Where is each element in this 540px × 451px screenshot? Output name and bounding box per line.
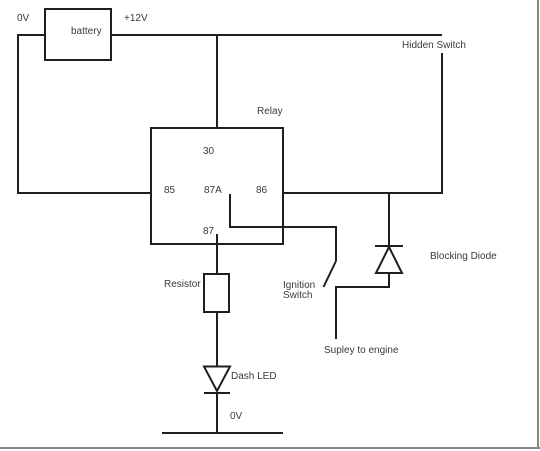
label: Ignition Switch [283, 281, 315, 301]
wire: left vertical 0V drop [17, 34, 19, 194]
wire: top +12V rail from 0V corner to hidden switch [17, 34, 442, 36]
resistor R1 box [203, 273, 230, 313]
wire: vertical from rail to relay pin 30 [216, 34, 218, 127]
battery B1 [44, 8, 112, 61]
wire: 87A horizontal to ignition switch [229, 226, 337, 228]
wire: diode branch vertical from 86 rail [388, 192, 390, 246]
pin 86 label [256, 186, 267, 196]
label: Dash LED [231, 372, 277, 382]
wire: relay pin 86 to hidden switch vertical [284, 192, 442, 194]
ground rail 0V [162, 432, 283, 434]
label: Hidden Switch [402, 41, 466, 51]
wire: diode anode to lower wire [388, 273, 390, 288]
label: Relay [257, 107, 283, 117]
wire: resistor to LED [216, 312, 218, 367]
relay U1 box [150, 127, 284, 245]
wire: 87A internal vertical [229, 194, 231, 228]
hidden switch SW1 vertical wire [441, 53, 443, 194]
label: Resistor [164, 280, 201, 290]
label: Blocking Diode [430, 252, 497, 262]
LED D2 cathode bar [204, 392, 230, 394]
node +12V [124, 14, 148, 24]
node 0V (bottom) [230, 412, 242, 422]
pin 30 label [203, 147, 214, 157]
label: battery [71, 27, 102, 37]
pin 87A label [204, 186, 222, 196]
wire: ignition switch lower contact to diode [335, 286, 389, 288]
wire: LED to ground rail [216, 392, 218, 433]
label: Supley to engine [324, 346, 399, 356]
wire: supply vertical drop [335, 286, 337, 339]
pin 87 label [203, 227, 214, 237]
node 0V (top left) [17, 14, 29, 24]
wire: horizontal into relay pin 85 [17, 192, 150, 194]
wire: relay pin 87 down to resistor [216, 234, 218, 273]
pin 85 label [164, 186, 175, 196]
diode D1 cathode bar [375, 245, 403, 247]
wire: ignition switch upper contact vertical [335, 226, 337, 261]
